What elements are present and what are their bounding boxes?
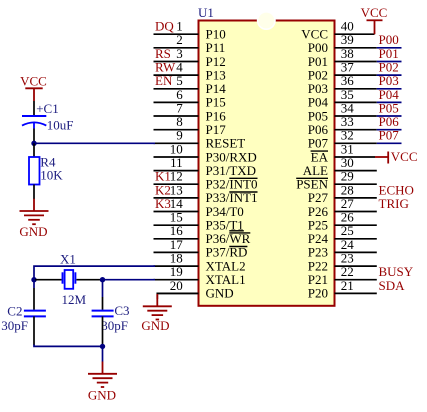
wire C1 to junction	[33, 129, 35, 144]
net label P04	[379, 87, 400, 102]
svg-text:EN: EN	[155, 73, 173, 88]
U1 designator	[198, 5, 214, 20]
svg-text:GND: GND	[88, 388, 116, 403]
net label P02	[379, 60, 399, 75]
capacitor C2	[24, 311, 46, 317]
crystal X1	[35, 270, 101, 289]
svg-text:21: 21	[341, 278, 354, 293]
svg-text:C2: C2	[7, 303, 22, 318]
svg-text:SDA: SDA	[379, 278, 406, 293]
net label P05	[379, 100, 399, 115]
svg-text:VCC: VCC	[20, 73, 47, 88]
wire bottom junction to ground	[102, 346, 104, 361]
power symbol VCC (pin 40)	[361, 5, 388, 34]
capacitor C3	[92, 311, 114, 317]
wire C2 to bottom rail	[33, 316, 35, 345]
junction node bottom	[100, 344, 105, 349]
net label RS	[155, 46, 171, 61]
wire XTAL2 net (pin 18)	[34, 266, 155, 280]
net label P00	[379, 32, 399, 47]
wire R4 to ground	[33, 185, 35, 200]
U1 left pin names	[206, 27, 258, 301]
bottom rail wire	[34, 345, 103, 347]
R4 designator + value	[40, 155, 63, 183]
X1 value 12M	[62, 292, 87, 307]
net label EN	[155, 73, 173, 88]
overline PSEN (pin 29)	[296, 177, 328, 179]
junction node (RESET)	[31, 141, 36, 146]
svg-text:GND: GND	[206, 286, 234, 301]
net label BUSY	[379, 264, 414, 279]
net label K3	[155, 196, 171, 211]
wire RESET net to pin 9	[34, 142, 155, 144]
U1 right pin stubs (pins 40-21)	[335, 34, 377, 293]
net label ECHO	[379, 182, 414, 197]
X1 designator	[60, 251, 76, 266]
svg-text:12M: 12M	[62, 292, 87, 307]
C2 designator + value	[1, 303, 28, 333]
net label P01	[379, 46, 399, 61]
net label P06	[379, 114, 400, 129]
wire junction to R4	[33, 143, 35, 157]
overline WR (pin 16)	[229, 232, 250, 234]
IC U1 body	[199, 12, 335, 306]
svg-text:30pF: 30pF	[101, 318, 128, 333]
wire VCC to C1	[33, 101, 35, 115]
svg-text:U1: U1	[198, 5, 214, 20]
ground symbol GND (R4)	[19, 199, 48, 239]
wire crystal-right to C3	[102, 280, 104, 310]
U1 left pin numbers 1-20	[170, 19, 184, 293]
wire C3 to bottom junction	[102, 316, 104, 344]
capacitor C1 (polarized)	[22, 116, 46, 129]
U1 pin 20 stub	[157, 292, 198, 294]
overline INT0 (pin 12)	[229, 177, 257, 179]
resistor R4	[29, 157, 40, 185]
net label TRIG	[379, 196, 409, 211]
junction node crystal left	[31, 277, 36, 282]
svg-text:DQ: DQ	[155, 19, 174, 34]
ground symbol GND (pin 20)	[141, 294, 171, 333]
C3 designator + value	[101, 303, 129, 333]
overline EA (pin 31)	[311, 150, 328, 152]
wire crystal-left to C2	[33, 280, 35, 310]
net label K2	[155, 182, 171, 197]
svg-text:K3: K3	[155, 196, 171, 211]
power symbol VCC (pin 31 EA)	[375, 149, 418, 164]
net label P07	[379, 128, 400, 143]
svg-text:C3: C3	[114, 303, 129, 318]
U1 left pin stubs (pins 1-19)	[154, 34, 199, 280]
svg-text:+C1: +C1	[36, 101, 59, 116]
svg-text:30pF: 30pF	[1, 318, 28, 333]
ground symbol GND (crystal)	[88, 362, 117, 403]
svg-text:10K: 10K	[40, 167, 63, 182]
net label K1	[155, 169, 171, 184]
wires nets P00-P07 (pins 39-32)	[377, 48, 402, 144]
wire pin 20 to ground	[157, 293, 198, 299]
svg-text:TRIG: TRIG	[379, 196, 409, 211]
svg-text:X1: X1	[60, 251, 76, 266]
svg-text:VCC: VCC	[361, 5, 388, 20]
svg-text:GND: GND	[19, 224, 47, 239]
net label P03	[379, 73, 399, 88]
net label SDA	[379, 278, 406, 293]
overline RD (pin 17)	[229, 246, 247, 248]
net label RW	[155, 60, 176, 75]
svg-text:P20: P20	[308, 286, 328, 301]
power symbol VCC (C1 branch)	[20, 73, 47, 101]
U1 right pin names	[296, 27, 328, 301]
overline INT1 (pin 13)	[229, 191, 257, 193]
svg-text:10uF: 10uF	[47, 117, 74, 132]
U1 right pin numbers 40-21	[341, 19, 355, 293]
net label DQ	[155, 19, 174, 34]
underline T1 (pin 15)	[229, 230, 244, 232]
svg-text:20: 20	[170, 278, 183, 293]
svg-text:P07: P07	[379, 128, 400, 143]
svg-text:VCC: VCC	[391, 149, 418, 164]
wire XTAL1 net (pin 19)	[103, 279, 156, 281]
junction node crystal right	[100, 277, 105, 282]
svg-text:GND: GND	[141, 318, 169, 333]
C1 designator + value	[36, 101, 73, 133]
